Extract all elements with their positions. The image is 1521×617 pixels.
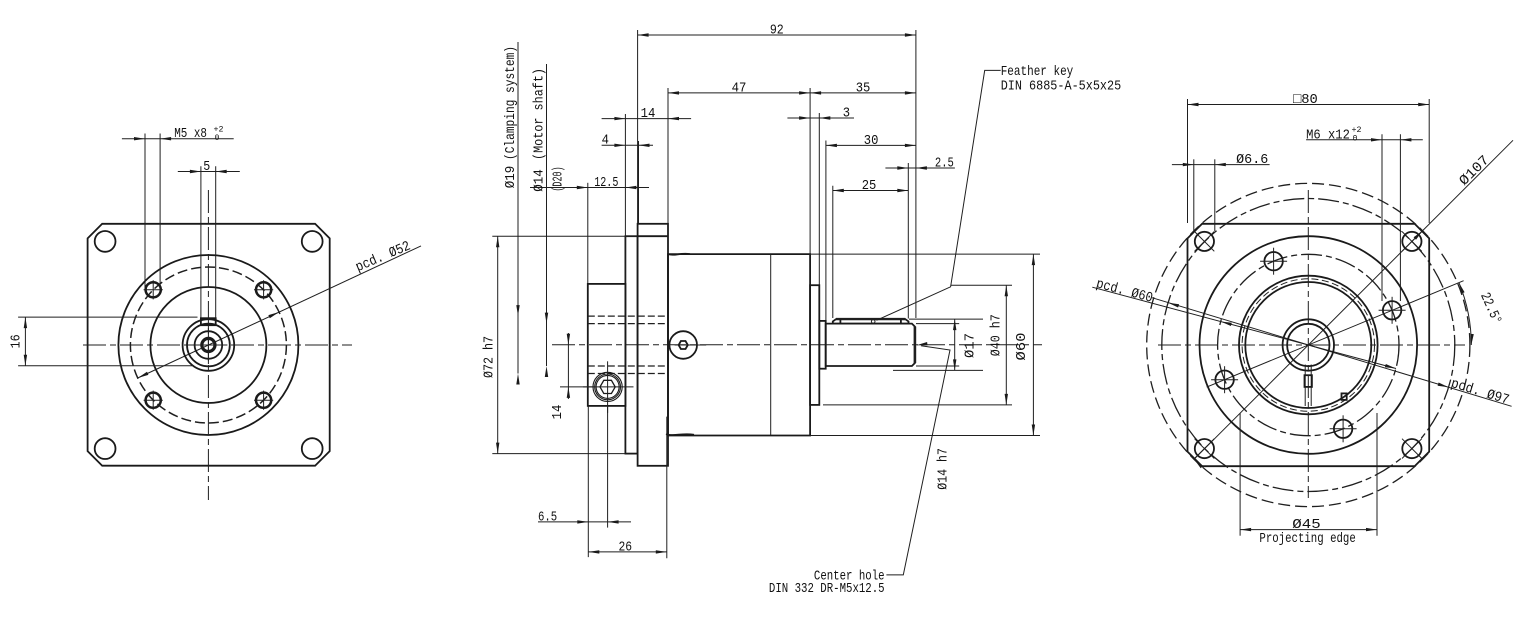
right view set screw mark (1342, 393, 1347, 400)
svg-text:35: 35 (856, 80, 871, 96)
left view corner hole bottom-right (302, 438, 323, 459)
left view vertical centerline (207, 190, 209, 500)
dimension D72 h7 extension lines (492, 235, 636, 237)
middle view hidden bore lines D19 (588, 315, 668, 317)
right view M6 hole at 112.5 deg (1264, 252, 1282, 270)
middle view body joint line (770, 254, 772, 435)
left view M5 tapped hole 3 (146, 393, 161, 408)
svg-text:(Motor shaft): (Motor shaft) (532, 68, 548, 160)
dimension 12.5 line (530, 187, 649, 189)
dimension 3 line (787, 117, 854, 119)
svg-text:Ø6.6: Ø6.6 (1236, 152, 1268, 168)
dimension 12.5 extension line (587, 183, 589, 283)
svg-text:47: 47 (732, 80, 747, 96)
dimension D45 extension lines (1239, 413, 1241, 536)
dimension D107 line at 45 deg (1194, 140, 1513, 459)
right view M6 hole at 22.5 deg (1383, 301, 1401, 319)
right view 22.5 deg radial line (1207, 281, 1464, 387)
dimension 4 extension line (638, 141, 640, 223)
dimension D6.6 line (1172, 164, 1270, 166)
right view corner hole 3 (1195, 439, 1214, 458)
dimension 92 extension lines (637, 30, 639, 223)
right view flange outline (1188, 224, 1430, 466)
dimension square 80 line (1188, 104, 1430, 106)
dimension 16 extension lines (18, 316, 197, 318)
middle view flange top cap line (638, 235, 668, 237)
dimension 47 and 35 extension line (667, 88, 669, 254)
middle view hidden bore lines D14 (588, 323, 668, 325)
left view M5 tapped hole 1 (146, 282, 161, 297)
left view inner circle (150, 287, 266, 403)
left view hub circle 3 (195, 331, 223, 359)
dimension 92 line (638, 34, 916, 36)
center hole leader (886, 346, 950, 575)
dimension pcd52 leader line (138, 246, 421, 378)
dimension 6.5 line (538, 521, 631, 523)
svg-text:14: 14 (550, 405, 566, 420)
dimension 4 line (602, 144, 653, 146)
dimension 25 extension line (832, 186, 834, 318)
left view M5 tapped hole 2 (256, 282, 271, 297)
dimension 5 line (178, 171, 240, 173)
dimension 14 vertical line (567, 333, 569, 399)
right view M6 hole at 292.5 deg (1334, 420, 1352, 438)
dimension 5 extension lines (200, 166, 202, 318)
middle view projecting edge disc D40 (810, 285, 819, 405)
middle view motor spigot D72 (625, 236, 637, 453)
right view projecting edge circle D45 (1239, 276, 1378, 415)
svg-text:0: 0 (215, 133, 220, 143)
dimension 47 line (668, 92, 810, 94)
middle view horizontal centerline (552, 344, 1042, 346)
dimension D60 extension lines (810, 253, 1040, 255)
right view bolt circle pcd97 (1162, 199, 1455, 492)
right view dashed circle (1242, 279, 1374, 411)
dimension D45 line (1240, 529, 1377, 531)
dimension 2.5 extension line (907, 163, 909, 319)
right view max diameter D107 dashed circle (1147, 183, 1470, 506)
svg-text:3: 3 (843, 105, 850, 121)
dimension M6 x12 line (1306, 139, 1423, 141)
right view corner hole 2 (1402, 232, 1421, 251)
middle view gearbox body (668, 254, 810, 435)
svg-text:92: 92 (770, 23, 784, 39)
dimension 14 vertical extension line (560, 386, 594, 388)
dimension M6 x12 extension lines (1381, 134, 1383, 301)
middle view flange plate (638, 224, 668, 466)
dimension 14 line (602, 118, 692, 120)
feather key end tangent lines (839, 319, 841, 324)
dimension pcd60 line (1092, 287, 1396, 368)
dimension 6.5 extension lines (587, 406, 589, 557)
left view hub circle 2 (187, 324, 230, 367)
svg-text:6.5: 6.5 (538, 509, 557, 525)
body break wiggle top (668, 254, 690, 255)
label motor shaft leader line (546, 64, 548, 366)
feather key leader (877, 70, 1001, 320)
svg-text:□80: □80 (1293, 92, 1318, 108)
right view clamp hub circle (1245, 282, 1371, 408)
dimension D6.6 extension lines (1193, 159, 1195, 231)
right view bolt circle pcd60 (1218, 254, 1399, 435)
svg-text:Ø14 h7: Ø14 h7 (936, 448, 952, 490)
left view bore circle thick (202, 338, 215, 351)
svg-text:0: 0 (1353, 134, 1358, 144)
svg-text:(D20): (D20) (551, 166, 567, 191)
left view center cross (189, 344, 227, 346)
right view keyway slot (1304, 365, 1306, 407)
svg-text:Ø17: Ø17 (962, 333, 978, 358)
dimension 3 extension line (818, 113, 820, 285)
middle view output shaft D14 (826, 324, 915, 366)
dimension 26 line (588, 551, 667, 553)
svg-text:Ø19: Ø19 (503, 166, 519, 189)
dimension 30 extension line (825, 141, 827, 321)
svg-text:Ø72 h7: Ø72 h7 (482, 336, 498, 378)
middle view clamp screw (593, 372, 622, 401)
dimension D40 h7 line (1005, 285, 1007, 405)
svg-text:14: 14 (641, 106, 656, 122)
svg-text:DIN 6885-A-5x5x25: DIN 6885-A-5x5x25 (1001, 78, 1121, 94)
svg-text:30: 30 (864, 133, 879, 149)
middle view shaft step (819, 321, 825, 369)
svg-text:25: 25 (862, 178, 877, 194)
dimension D17 line (954, 319, 956, 370)
dimension 14 extension line (624, 114, 626, 283)
svg-text:2.5: 2.5 (935, 155, 954, 171)
left view horizontal centerline (83, 344, 352, 346)
svg-text:26: 26 (619, 539, 633, 555)
left view flange outline (88, 224, 330, 466)
dimension M5 x8 line (122, 138, 234, 140)
dimension 35 line (810, 92, 916, 94)
left view M5 tapped hole 4 (256, 393, 271, 408)
dimension 26 extension line (666, 417, 668, 559)
left view corner hole bottom-left (95, 438, 116, 459)
left view hub outer circle (183, 319, 235, 371)
label clamping system leader line (517, 42, 519, 374)
svg-text:Ø14: Ø14 (532, 169, 548, 192)
dimension D17 extension lines (909, 318, 983, 320)
dimension 16 line (24, 317, 26, 366)
clamp screw crosshair (583, 386, 634, 388)
dimension 30 line (826, 144, 916, 146)
svg-text:12.5: 12.5 (594, 175, 618, 191)
svg-text:M6 x12: M6 x12 (1306, 127, 1350, 143)
svg-text:5: 5 (203, 159, 210, 175)
dimension D60 line (1032, 254, 1034, 435)
dimension square 80 extension lines (1187, 99, 1189, 223)
set screw crosshair (675, 344, 707, 346)
svg-text:DIN 332 DR-M5x12.5: DIN 332 DR-M5x12.5 (769, 581, 885, 597)
middle view clamp hub outline (588, 284, 626, 406)
dimension 25 line (833, 190, 909, 192)
right view pilot circle D72 (1200, 236, 1418, 454)
svg-text:4: 4 (602, 133, 609, 149)
body break wiggle bottom (666, 433, 694, 436)
right view circle D17 (1283, 319, 1334, 370)
svg-text:16: 16 (9, 334, 25, 348)
dimension 22.5 deg arc (1459, 283, 1471, 345)
middle view feather key (833, 319, 909, 324)
middle view set screw on flange (669, 331, 697, 359)
feather key center mark (871, 320, 875, 324)
dimension M5 x8 extension lines (144, 134, 146, 291)
right view M6 hole at 202.5 deg (1215, 371, 1233, 389)
dimension pcd97 line (1152, 298, 1512, 407)
right view horizontal centerline (1158, 344, 1465, 346)
right view bore circle D14 (1287, 324, 1329, 366)
left view clamp slot notch (201, 318, 216, 325)
dimension D40 h7 extension lines (951, 284, 1012, 286)
svg-text:(Clamping system): (Clamping system) (503, 46, 519, 160)
left view corner hole top-left (95, 231, 116, 252)
right view vertical centerline (1307, 190, 1309, 498)
left view corner hole top-right (302, 231, 323, 252)
dimension D72 h7 line (497, 236, 499, 453)
svg-text:Projecting edge: Projecting edge (1259, 531, 1355, 547)
svg-text:Ø60: Ø60 (1014, 333, 1030, 361)
left view bolt circle pcd52 dashed (130, 267, 286, 423)
right view corner hole 1 (1195, 232, 1214, 251)
right view corner hole 4 (1402, 439, 1421, 458)
svg-text:M5 x8: M5 x8 (174, 126, 207, 142)
left view pilot circle D60 (118, 255, 298, 435)
svg-text:Ø40 h7: Ø40 h7 (989, 314, 1005, 356)
dimension 2.5 line (885, 167, 955, 169)
